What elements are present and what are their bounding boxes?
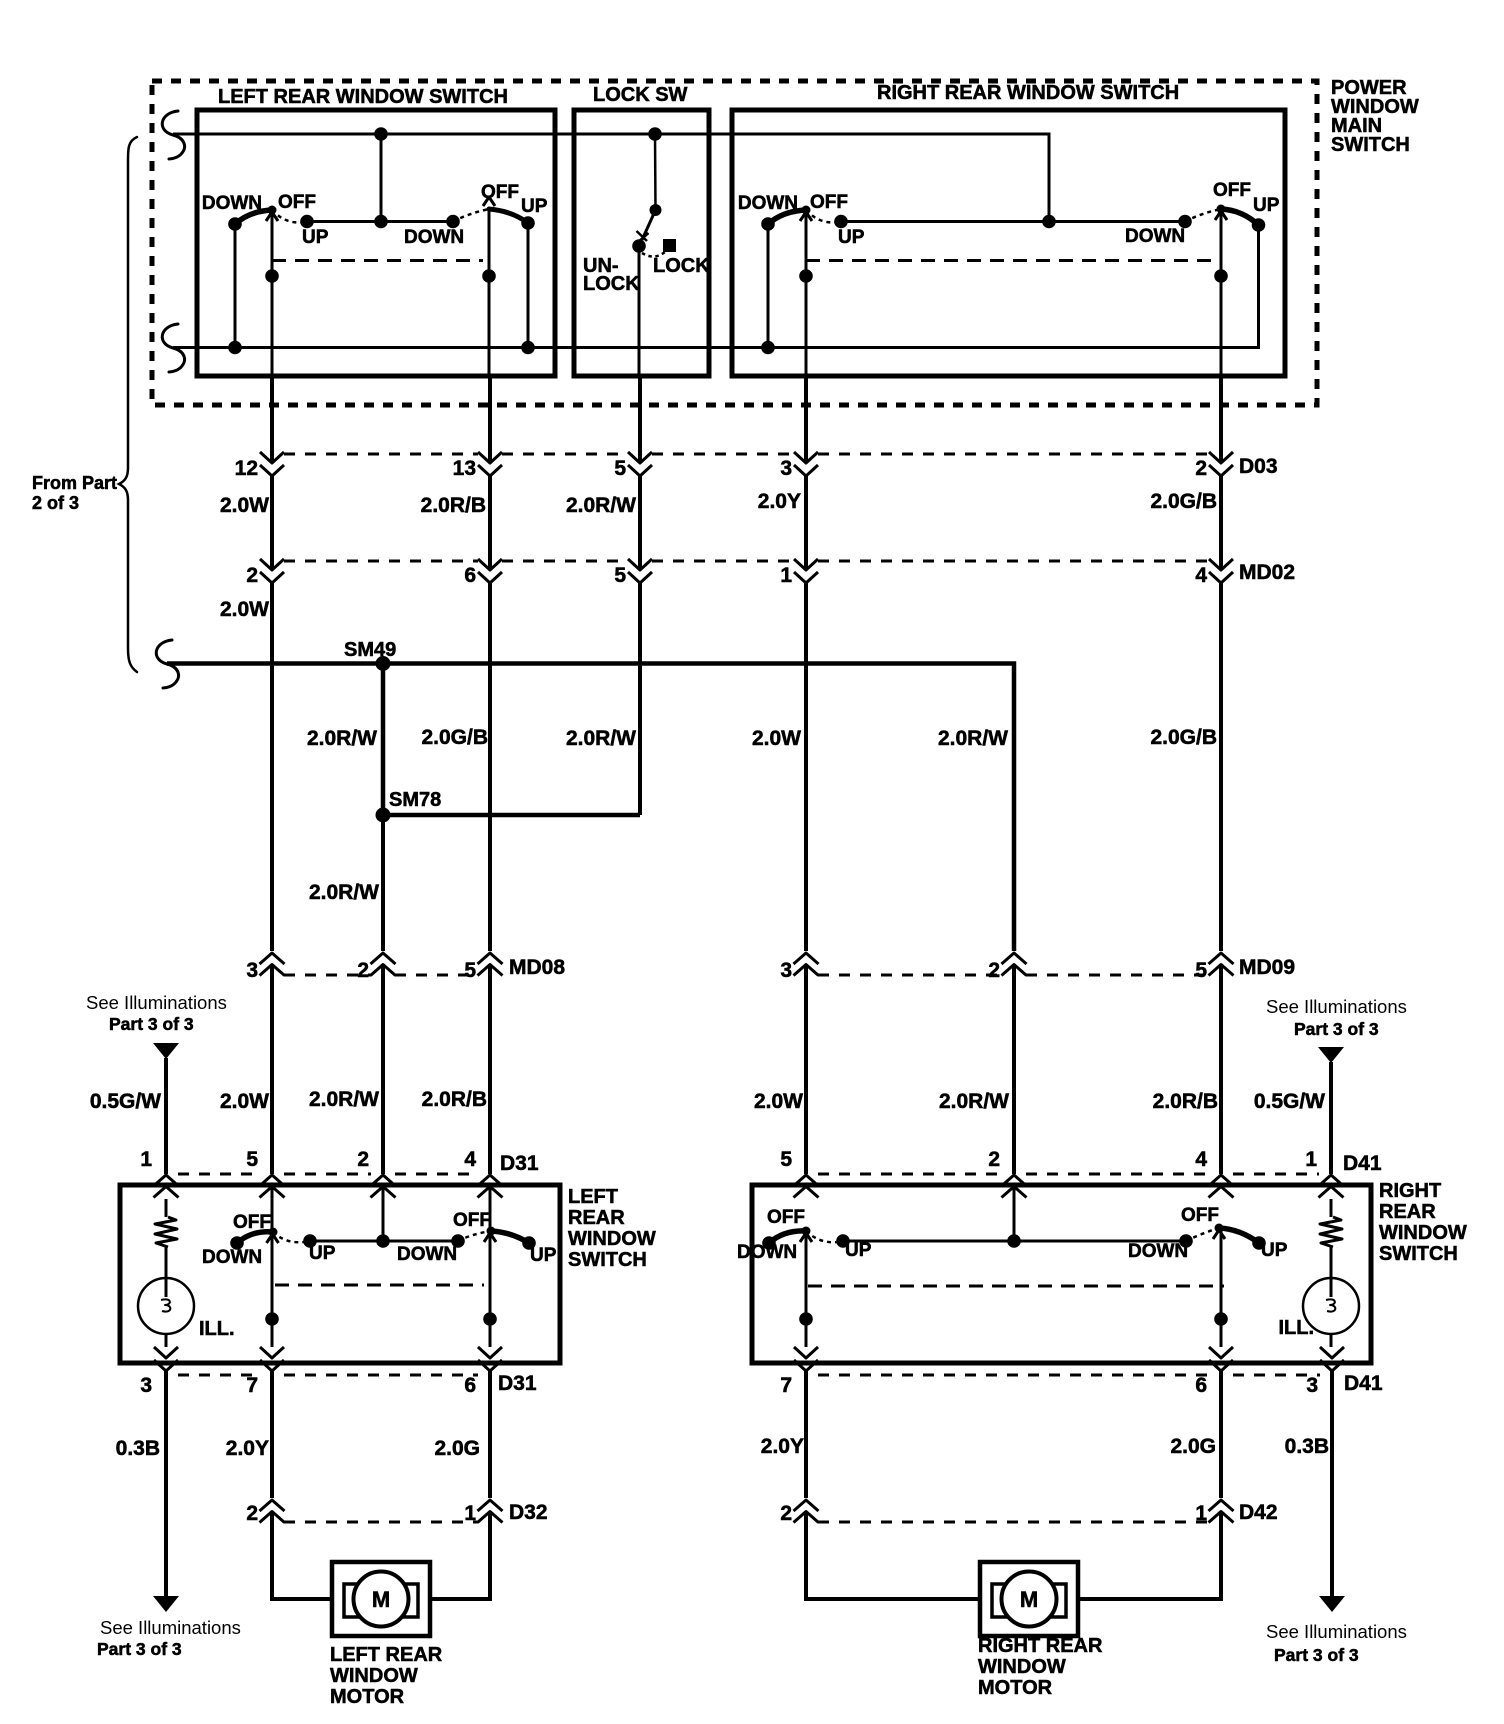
resistor illumination left: [155, 1199, 177, 1297]
connector D42 pin 1: [1195, 1500, 1233, 1525]
svg-text:MOTOR: MOTOR: [978, 1677, 1053, 1699]
wire top feed (from part 2 of 3): [162, 111, 1049, 222]
label OFF (lower-left sw1): [233, 1212, 271, 1233]
svg-text:D32: D32: [509, 1501, 548, 1524]
lower-left box contact bar: [310, 1240, 458, 1243]
svg-text:Part 3 of 3: Part 3 of 3: [109, 1014, 194, 1034]
label DOWN (lower-left sw2): [397, 1244, 457, 1265]
connector D31 bottom dashed link: [178, 1374, 478, 1377]
svg-text:5: 5: [780, 1148, 792, 1171]
svg-text:DOWN: DOWN: [202, 1247, 262, 1268]
label LEFT REAR WINDOW MOTOR: [330, 1644, 443, 1708]
label D32: [509, 1501, 548, 1524]
lower-right switch 1 rocker: [762, 1227, 850, 1250]
svg-text:M: M: [372, 1587, 390, 1612]
svg-text:3: 3: [1306, 1374, 1318, 1397]
connector D03 pin 5: [614, 452, 652, 480]
wire illumination right lower + arrow: [1319, 1371, 1345, 1612]
label LEFT REAR WINDOW SWITCH: [218, 86, 508, 108]
wire label 0.5G/W left: [90, 1090, 161, 1113]
svg-text:2: 2: [357, 959, 369, 982]
node right box pivot1 wire dot: [799, 269, 813, 283]
svg-text:D03: D03: [1239, 455, 1278, 478]
connector D31 pin 3 (bottom): [140, 1347, 178, 1397]
label LOCK: [653, 255, 710, 277]
svg-text:5: 5: [1195, 959, 1207, 982]
svg-text:WINDOW: WINDOW: [1379, 1222, 1467, 1244]
wire label 0.3B left: [116, 1437, 160, 1460]
illumination feed arrow (upper left): [153, 1043, 179, 1059]
connector D31 pin 5 (top): [246, 1148, 284, 1198]
svg-text:SWITCH: SWITCH: [1379, 1243, 1458, 1265]
label RIGHT REAR WINDOW MOTOR: [978, 1635, 1103, 1699]
connector MD09 pin 5: [1195, 953, 1233, 982]
wire left box sw1 down-contact to bottom feed: [228, 224, 242, 354]
svg-text:0.5G/W: 0.5G/W: [1254, 1090, 1325, 1113]
node SM49: [344, 639, 396, 671]
label OFF (lower-right sw1): [767, 1207, 805, 1228]
label DOWN (left box sw2): [404, 227, 464, 248]
label D31 (top): [500, 1152, 539, 1175]
connector D03 pin 2: [1195, 452, 1233, 480]
wire label 2.0R/W below SM78: [309, 881, 379, 904]
wire label 0.5G/W right: [1254, 1090, 1325, 1113]
svg-text:LOCK: LOCK: [653, 255, 710, 277]
svg-text:2.0W: 2.0W: [220, 598, 269, 621]
connector D31 pin 6 (bottom): [464, 1347, 502, 1397]
svg-text:WINDOW: WINDOW: [330, 1665, 418, 1687]
label D41 (top): [1343, 1152, 1382, 1175]
svg-text:OFF: OFF: [453, 1210, 491, 1231]
label LOCK SW: [593, 84, 688, 106]
svg-text:MD08: MD08: [509, 956, 565, 979]
right box switch 1 (DOWN-OFF-UP rocker): [761, 206, 848, 231]
svg-text:OFF: OFF: [233, 1212, 271, 1233]
wire column B to left motor: [430, 1371, 490, 1599]
svg-text:DOWN: DOWN: [404, 227, 464, 248]
svg-text:2.0R/W: 2.0R/W: [566, 494, 636, 517]
label see illuminations (upper left): [86, 992, 227, 1034]
svg-text:D42: D42: [1239, 1501, 1278, 1524]
svg-text:1: 1: [1195, 1502, 1207, 1525]
connector D41 pin 3 (bottom): [1306, 1347, 1344, 1397]
svg-text:2.0W: 2.0W: [220, 494, 269, 517]
svg-text:2.0W: 2.0W: [752, 727, 801, 750]
svg-text:D31: D31: [498, 1372, 537, 1395]
connector D41 bottom dashed link: [818, 1374, 1320, 1377]
connector D41 pin 1 (top): [1305, 1148, 1343, 1198]
lower-right linkage dashed: [808, 1285, 1224, 1288]
right rear window motor M: [980, 1562, 1078, 1636]
svg-text:2.0Y: 2.0Y: [761, 1435, 804, 1458]
wire label 2.0W col D: [754, 1090, 803, 1113]
node left box pivot1 wire dot: [265, 269, 279, 283]
wire lower-left pivot1 to pin7: [265, 1232, 279, 1347]
wire label 0.3B right: [1285, 1435, 1329, 1458]
svg-text:From Part: From Part: [32, 473, 117, 493]
node left box pivot2 wire dot: [482, 269, 496, 283]
svg-text:OFF: OFF: [278, 192, 316, 213]
label DOWN (right box sw1): [738, 193, 798, 214]
label D31 (bottom): [498, 1372, 537, 1395]
wire label 2.0Y right: [761, 1435, 804, 1458]
lamp ILL left: [138, 1278, 194, 1347]
brace from part 2 of 3: [119, 137, 137, 672]
wire lower-left pivot1 stub up: [271, 1188, 274, 1232]
svg-text:Part 3 of 3: Part 3 of 3: [97, 1639, 182, 1659]
connector MD02 dashed link: [284, 560, 1209, 563]
label see illuminations (lower left): [97, 1617, 241, 1659]
svg-text:2.0R/W: 2.0R/W: [307, 727, 377, 750]
connector MD08 pin 3: [246, 953, 284, 982]
label UP (lower-right sw2): [1261, 1240, 1288, 1261]
connector MD08 pin 2: [357, 953, 395, 982]
connector MD09 dashed link: [818, 974, 1209, 977]
svg-text:1: 1: [1305, 1148, 1317, 1171]
label RIGHT REAR WINDOW SWITCH (door): [1379, 1180, 1467, 1265]
connector D31 pin 1 (top): [140, 1148, 178, 1198]
wire label 2.0G right: [1170, 1435, 1216, 1458]
label MD02: [1239, 561, 1295, 584]
lower-left switch 1 rocker: [230, 1228, 317, 1250]
svg-text:2.0W: 2.0W: [754, 1090, 803, 1113]
left box switch 1 (DOWN-OFF-UP rocker): [228, 206, 314, 231]
connector D03 pin 3: [780, 452, 818, 480]
svg-text:6: 6: [464, 564, 476, 587]
label UP (right box sw1): [838, 227, 865, 248]
label DOWN (lower-left sw1): [202, 1247, 262, 1268]
svg-text:12: 12: [235, 457, 258, 480]
svg-text:5: 5: [614, 457, 626, 480]
node lock switch feed dot: [648, 127, 662, 216]
svg-text:OFF: OFF: [810, 192, 848, 213]
wire illumination left upper: [164, 1058, 168, 1174]
connector D32 pin 1: [464, 1500, 502, 1525]
wire label 2.0G left: [434, 1437, 480, 1460]
svg-text:2: 2: [246, 564, 258, 587]
label DOWN (right box sw2): [1125, 226, 1185, 247]
svg-text:SM78: SM78: [389, 789, 441, 811]
svg-text:2 of 3: 2 of 3: [32, 493, 79, 513]
wire label 2.0W col D: [752, 727, 801, 750]
label OFF (lower-right sw2): [1181, 1205, 1219, 1226]
svg-text:13: 13: [453, 457, 476, 480]
wire lower-left pivot2 to pin6: [483, 1231, 497, 1347]
svg-text:UP: UP: [530, 1245, 557, 1266]
svg-text:0.3B: 0.3B: [116, 1437, 160, 1460]
wire bottom feed (from part 2 of 3): [162, 225, 1258, 372]
svg-text:7: 7: [780, 1374, 792, 1397]
svg-text:OFF: OFF: [767, 1207, 805, 1228]
label RIGHT REAR WINDOW SWITCH: [877, 82, 1179, 104]
svg-text:MD09: MD09: [1239, 956, 1295, 979]
connector D41 pin 5 (top): [780, 1148, 818, 1198]
svg-text:6: 6: [464, 1374, 476, 1397]
svg-text:WINDOW: WINDOW: [978, 1656, 1066, 1678]
lock switch box: [574, 110, 709, 376]
connector D41 pin 7 (bottom): [780, 1347, 818, 1397]
left rear window switch box (door): [120, 1185, 560, 1363]
svg-text:See Illuminations: See Illuminations: [100, 1617, 241, 1638]
svg-text:0.5G/W: 0.5G/W: [90, 1090, 161, 1113]
label OFF (right box sw2): [1213, 180, 1251, 201]
label see illuminations (lower right): [1266, 1621, 1407, 1665]
svg-text:DOWN: DOWN: [737, 1242, 797, 1263]
wire column D to right motor: [806, 1371, 980, 1599]
svg-text:Part 3 of 3: Part 3 of 3: [1294, 1019, 1379, 1039]
wire illumination right upper: [1329, 1062, 1333, 1174]
connector D42 pin 2: [780, 1500, 818, 1525]
label ILL. left: [199, 1318, 235, 1340]
connector MD02 pin 4: [1195, 559, 1233, 587]
svg-text:LEFT: LEFT: [568, 1186, 618, 1208]
svg-text:4: 4: [1195, 1148, 1207, 1171]
node junction top wire / right switch: [1042, 215, 1056, 229]
wire column E (2/4/5/4): [1219, 376, 1223, 1174]
label DOWN (left box sw1): [202, 193, 262, 214]
svg-text:3: 3: [780, 457, 792, 480]
svg-text:6: 6: [1195, 1374, 1207, 1397]
label From Part 2 of 3: [32, 473, 117, 513]
svg-text:DOWN: DOWN: [397, 1244, 457, 1265]
wire label 2.0G/B: [1150, 490, 1217, 513]
svg-text:2.0R/W: 2.0R/W: [566, 727, 636, 750]
connector D41 pin 6 (bottom): [1195, 1347, 1233, 1397]
node junction top wire / left switch: [374, 127, 388, 228]
svg-text:LOCK SW: LOCK SW: [593, 84, 688, 106]
svg-text:SM49: SM49: [344, 639, 396, 661]
lock switch arm: [637, 210, 656, 243]
svg-text:2.0R/B: 2.0R/B: [421, 494, 486, 517]
wire SM49 to SM78: [381, 664, 386, 816]
svg-text:SWITCH: SWITCH: [1331, 134, 1410, 156]
wire label 2.0W below MD02: [220, 598, 269, 621]
label MD08: [509, 956, 565, 979]
lower-left linkage dashed: [275, 1284, 484, 1287]
svg-text:LEFT REAR: LEFT REAR: [330, 1644, 443, 1666]
connector D32 pin 2: [246, 1500, 284, 1525]
connector D31 top dashed link: [178, 1173, 478, 1176]
illumination feed arrow (upper right): [1318, 1047, 1344, 1063]
wire label 2.0R/W col SM: [309, 1088, 379, 1111]
node UNLOCK contact: [632, 239, 646, 253]
wire left box pivot2 stub: [488, 209, 491, 376]
left rear window motor M: [332, 1562, 430, 1636]
connector MD09 pin 2: [988, 953, 1026, 982]
svg-text:RIGHT REAR: RIGHT REAR: [978, 1635, 1103, 1657]
svg-text:3: 3: [140, 1374, 152, 1397]
svg-text:5: 5: [246, 1148, 258, 1171]
connector D31 pin 4 (top): [464, 1148, 502, 1198]
wire label 2.0R/W: [566, 494, 636, 517]
wire label 2.0R/B: [421, 494, 486, 517]
svg-text:REAR: REAR: [568, 1207, 625, 1229]
wire right box sw1 down-contact to bottom feed: [761, 224, 775, 354]
svg-text:UP: UP: [845, 1240, 872, 1261]
wire label 2.0Y: [758, 490, 801, 513]
svg-text:OFF: OFF: [1181, 1205, 1219, 1226]
svg-text:4: 4: [1195, 564, 1207, 587]
label POWER WINDOW MAIN SWITCH: [1331, 77, 1419, 156]
wire label 2.0R/W col F: [938, 727, 1008, 750]
svg-text:2.0R/B: 2.0R/B: [1153, 1090, 1218, 1113]
wire illumination left lower + arrow: [153, 1371, 179, 1612]
label MD09: [1239, 956, 1295, 979]
wire left box sw2 up-contact to bottom feed: [521, 223, 535, 354]
lower-left switch 2 rocker: [451, 1227, 536, 1250]
label UP (left box sw1): [302, 227, 329, 248]
connector D03 pin 12: [235, 452, 284, 480]
wire label 2.0R/B col E: [1153, 1090, 1218, 1113]
lower-right box contact bar: [843, 1240, 1186, 1243]
right rear window switch box (main switch section): [732, 110, 1285, 376]
connector D41 top dashed link: [818, 1173, 1319, 1176]
label UP (lower-left sw2): [530, 1245, 557, 1266]
label UP (lower-right sw1): [845, 1240, 872, 1261]
wire left box contact bar: [307, 220, 453, 223]
connector D41 pin 4 (top): [1195, 1148, 1233, 1198]
label OFF (left box sw1): [278, 192, 316, 213]
svg-text:ILL.: ILL.: [1278, 1317, 1314, 1339]
wire column SM below SM78: [381, 815, 385, 1174]
svg-text:2.0G: 2.0G: [434, 1437, 480, 1460]
wire left box pivot1 stub: [271, 210, 274, 376]
svg-text:See Illuminations: See Illuminations: [1266, 996, 1407, 1017]
label LEFT REAR WINDOW SWITCH (door): [568, 1186, 656, 1271]
connector MD08 pin 5: [464, 953, 502, 982]
svg-text:4: 4: [464, 1148, 476, 1171]
svg-text:2.0R/W: 2.0R/W: [309, 1088, 379, 1111]
label DOWN (lower-right sw1): [737, 1242, 797, 1263]
svg-text:2: 2: [357, 1148, 369, 1171]
svg-text:2.0Y: 2.0Y: [226, 1437, 269, 1460]
svg-text:UP: UP: [302, 227, 329, 248]
svg-text:DOWN: DOWN: [1128, 1241, 1188, 1262]
wire label 2.0G/B col E: [1150, 726, 1217, 749]
svg-text:REAR: REAR: [1379, 1201, 1436, 1223]
svg-text:3: 3: [246, 959, 258, 982]
svg-text:DOWN: DOWN: [202, 193, 262, 214]
right rear window switch box (door): [752, 1185, 1371, 1363]
svg-text:OFF: OFF: [481, 182, 519, 203]
wire column E to right motor: [1078, 1371, 1221, 1599]
svg-text:0.3B: 0.3B: [1285, 1435, 1329, 1458]
svg-text:1: 1: [140, 1148, 152, 1171]
label DOWN (lower-right sw2): [1128, 1241, 1188, 1262]
svg-text:D41: D41: [1343, 1152, 1382, 1175]
svg-text:RIGHT REAR WINDOW SWITCH: RIGHT REAR WINDOW SWITCH: [877, 82, 1179, 104]
svg-text:MD02: MD02: [1239, 561, 1295, 584]
svg-text:2.0R/W: 2.0R/W: [309, 881, 379, 904]
wire SM78 link to lock column: [383, 813, 640, 818]
right box switch 2 (UP-OFF-DOWN rocker): [1178, 205, 1265, 232]
svg-text:SWITCH: SWITCH: [568, 1249, 647, 1271]
svg-text:D41: D41: [1344, 1372, 1383, 1395]
svg-text:2.0R/W: 2.0R/W: [938, 727, 1008, 750]
svg-text:UP: UP: [521, 196, 548, 217]
svg-text:Part 3 of 3: Part 3 of 3: [1274, 1645, 1359, 1665]
svg-text:UP: UP: [1261, 1240, 1288, 1261]
connector MD02 pin 1: [780, 559, 818, 587]
svg-text:2.0Y: 2.0Y: [758, 490, 801, 513]
label UP (right box sw2): [1253, 195, 1280, 216]
label D41 (bottom): [1344, 1372, 1383, 1395]
label D42: [1239, 1501, 1278, 1524]
connector D03 dashed link: [284, 453, 1209, 456]
svg-text:M: M: [1020, 1587, 1038, 1612]
label D03: [1239, 455, 1278, 478]
wire label 2.0R/W col lock: [566, 727, 636, 750]
node right box pivot2 wire dot: [1214, 269, 1228, 283]
left rear window switch box (main switch section): [197, 110, 555, 376]
node lower-right junction to pin 2: [1007, 1188, 1021, 1248]
wire column A (12/2/3/5): [270, 376, 274, 1174]
node LOCK contact: [663, 239, 676, 252]
wire column A to left motor: [272, 1371, 332, 1599]
wire unlock contact down: [638, 246, 641, 376]
svg-text:UP: UP: [309, 1243, 336, 1264]
svg-text:UP: UP: [1253, 195, 1280, 216]
lamp ILL right: [1303, 1278, 1359, 1347]
node lower-left junction to pin 2: [376, 1188, 390, 1248]
svg-text:D31: D31: [500, 1152, 539, 1175]
svg-text:5: 5: [614, 564, 626, 587]
svg-text:2: 2: [1195, 457, 1207, 480]
svg-text:LEFT REAR WINDOW SWITCH: LEFT REAR WINDOW SWITCH: [218, 86, 508, 108]
svg-text:OFF: OFF: [1213, 180, 1251, 201]
svg-text:UP: UP: [838, 227, 865, 248]
wire SM49 bus from part 2 of 3: [156, 640, 1014, 951]
connector MD08 dashed link: [284, 974, 478, 977]
wire label 2.0W col A: [220, 1090, 269, 1113]
power window main switch dashed enclosure: [152, 81, 1317, 405]
connector MD02 pin 5: [614, 559, 652, 587]
label ILL. right: [1278, 1317, 1314, 1339]
svg-text:2.0R/W: 2.0R/W: [939, 1090, 1009, 1113]
connector D31 pin 2 (top): [357, 1148, 395, 1198]
wire lower-right pivot1 to pin7: [799, 1231, 813, 1347]
svg-text:2.0G/B: 2.0G/B: [1150, 726, 1217, 749]
svg-text:7: 7: [246, 1374, 258, 1397]
svg-text:2.0R/B: 2.0R/B: [422, 1088, 487, 1111]
svg-text:DOWN: DOWN: [1125, 226, 1185, 247]
svg-text:DOWN: DOWN: [738, 193, 798, 214]
svg-text:1: 1: [464, 1502, 476, 1525]
svg-text:3: 3: [780, 959, 792, 982]
svg-text:MOTOR: MOTOR: [330, 1686, 405, 1708]
svg-text:2: 2: [246, 1502, 258, 1525]
left box mechanical linkage dashed: [272, 259, 483, 262]
connector MD09 pin 3: [780, 953, 818, 982]
label UN-LOCK: [583, 255, 640, 295]
wire right box contact bar: [841, 220, 1185, 223]
svg-text:5: 5: [464, 959, 476, 982]
label OFF (lower-left sw2): [453, 1210, 491, 1231]
right box mechanical linkage dashed: [806, 259, 1215, 262]
wire right box pivot2 stub: [1220, 209, 1223, 376]
label OFF (left box sw2): [481, 182, 519, 203]
connector D03 pin 13: [453, 452, 502, 480]
svg-text:2.0G/B: 2.0G/B: [1150, 490, 1217, 513]
connector D42 dashed link: [818, 1521, 1209, 1524]
svg-text:WINDOW: WINDOW: [568, 1228, 656, 1250]
label UP (lower-left sw1): [309, 1243, 336, 1264]
lock switch dashed throw arc: [642, 251, 666, 257]
left box switch 2 (UP-OFF-DOWN rocker): [446, 197, 535, 230]
svg-text:2.0W: 2.0W: [220, 1090, 269, 1113]
label see illuminations (upper right): [1266, 996, 1407, 1039]
label OFF (right box sw1): [810, 192, 848, 213]
